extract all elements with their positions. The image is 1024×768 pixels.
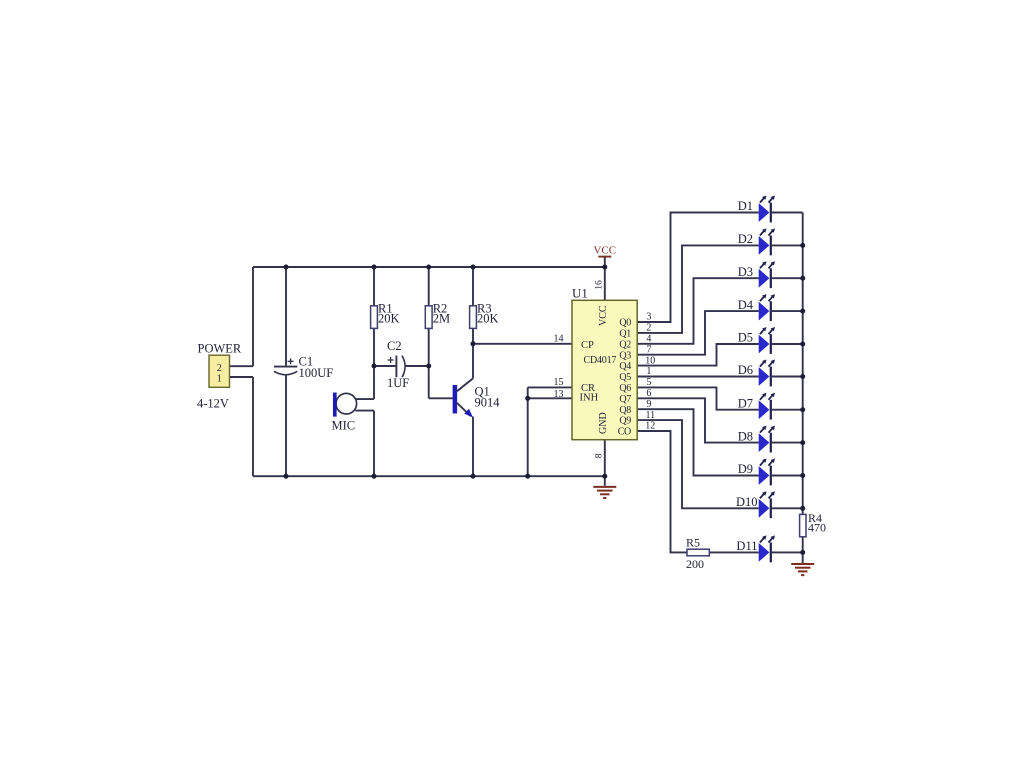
svg-text:15: 15 bbox=[554, 377, 564, 388]
svg-text:D10: D10 bbox=[736, 495, 758, 509]
svg-text:D9: D9 bbox=[738, 462, 753, 476]
svg-text:10: 10 bbox=[645, 355, 655, 366]
svg-text:2M: 2M bbox=[433, 312, 450, 326]
svg-text:MIC: MIC bbox=[332, 418, 356, 432]
svg-text:11: 11 bbox=[645, 410, 655, 421]
svg-text:6: 6 bbox=[646, 388, 651, 399]
svg-text:Q5: Q5 bbox=[619, 372, 631, 383]
svg-text:CP: CP bbox=[581, 340, 594, 351]
svg-text:3: 3 bbox=[646, 312, 651, 323]
svg-text:D6: D6 bbox=[738, 363, 753, 377]
svg-text:Q6: Q6 bbox=[619, 383, 631, 394]
svg-text:16: 16 bbox=[595, 280, 605, 290]
svg-text:13: 13 bbox=[554, 389, 564, 400]
svg-text:CO: CO bbox=[618, 427, 631, 438]
svg-text:D5: D5 bbox=[738, 331, 753, 345]
svg-text:VCC: VCC bbox=[593, 245, 616, 257]
svg-text:8: 8 bbox=[595, 453, 605, 458]
svg-text:C2: C2 bbox=[387, 339, 402, 353]
svg-text:1UF: 1UF bbox=[387, 376, 409, 390]
svg-text:9: 9 bbox=[646, 399, 651, 410]
svg-text:200: 200 bbox=[686, 557, 704, 571]
svg-text:Q1: Q1 bbox=[619, 329, 631, 340]
svg-text:D1: D1 bbox=[738, 199, 753, 213]
svg-text:9014: 9014 bbox=[475, 396, 501, 410]
svg-text:20K: 20K bbox=[378, 312, 400, 326]
svg-text:U1: U1 bbox=[572, 286, 588, 301]
svg-text:GND: GND bbox=[598, 412, 609, 434]
svg-text:D2: D2 bbox=[738, 232, 753, 246]
svg-text:Q2: Q2 bbox=[619, 339, 631, 350]
svg-text:D8: D8 bbox=[738, 429, 753, 443]
svg-text:Q4: Q4 bbox=[619, 361, 631, 372]
svg-text:2: 2 bbox=[646, 323, 651, 334]
svg-text:Q0: Q0 bbox=[619, 318, 631, 329]
svg-text:12: 12 bbox=[645, 421, 655, 432]
svg-text:1: 1 bbox=[217, 373, 222, 384]
svg-text:D7: D7 bbox=[738, 396, 753, 410]
svg-text:14: 14 bbox=[554, 334, 564, 345]
svg-text:470: 470 bbox=[808, 521, 826, 535]
svg-text:Q8: Q8 bbox=[619, 405, 631, 416]
svg-text:INH: INH bbox=[580, 392, 599, 403]
svg-text:POWER: POWER bbox=[198, 341, 242, 355]
svg-text:Q7: Q7 bbox=[619, 394, 631, 405]
svg-text:CD4017: CD4017 bbox=[584, 355, 617, 366]
svg-text:100UF: 100UF bbox=[299, 366, 334, 380]
svg-text:4: 4 bbox=[646, 334, 651, 345]
svg-text:VCC: VCC bbox=[598, 305, 609, 326]
svg-text:R5: R5 bbox=[686, 535, 700, 549]
svg-text:7: 7 bbox=[646, 344, 651, 355]
svg-text:20K: 20K bbox=[477, 312, 499, 326]
svg-text:5: 5 bbox=[646, 377, 651, 388]
svg-text:D4: D4 bbox=[738, 298, 754, 312]
svg-text:1: 1 bbox=[646, 366, 651, 377]
svg-text:D11: D11 bbox=[736, 539, 757, 553]
svg-text:Q3: Q3 bbox=[619, 350, 631, 361]
svg-text:4-12V: 4-12V bbox=[197, 397, 229, 411]
svg-text:Q9: Q9 bbox=[619, 416, 631, 427]
svg-text:D3: D3 bbox=[738, 265, 753, 279]
